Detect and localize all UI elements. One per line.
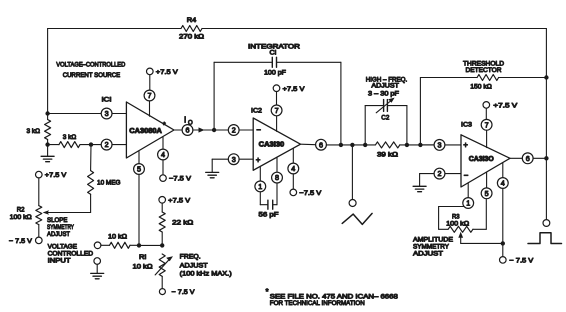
svg-text:3 kΩ: 3 kΩ xyxy=(63,134,77,141)
node junction 150k right xyxy=(544,75,548,79)
terminal +7.5 V (22k top) xyxy=(159,197,191,205)
svg-text:+7.5 V: +7.5 V xyxy=(493,103,518,110)
svg-text:2: 2 xyxy=(438,169,442,178)
terminal -7.5 V (R1 bottom) xyxy=(159,289,195,297)
R2 wiper arrowhead xyxy=(43,210,49,214)
label IC1 xyxy=(102,96,112,103)
node junction IC1 out / C1 / IC2 pin2 xyxy=(212,128,216,132)
wire 150k feedback xyxy=(420,78,546,145)
svg-text:+7.5 V: +7.5 V xyxy=(168,197,191,204)
svg-text:ADJUST: ADJUST xyxy=(180,262,208,269)
svg-text:5: 5 xyxy=(137,165,141,174)
capacitor 56 pF (IC2 comp) xyxy=(259,183,279,219)
node junction C1 feedback xyxy=(339,143,343,147)
wire triangle-wave branch xyxy=(351,145,353,200)
node junction input / pin5 xyxy=(137,243,141,247)
wire right-edge vertical (square-wave output net) xyxy=(545,29,547,220)
svg-text:6: 6 xyxy=(186,126,190,135)
terminal +7.5 V (IC1 pin7) xyxy=(147,68,179,90)
wire R4 feedback loop: left vertical + top horizontal xyxy=(48,29,547,114)
pin 6 IC1 with Io label xyxy=(174,115,193,135)
wire C1 feedback left vertical xyxy=(214,62,272,130)
terminal -7.5 V (IC2 pin4) xyxy=(290,174,322,197)
pin 4 IC1 xyxy=(158,137,169,160)
terminal voltage controlled input xyxy=(48,242,101,264)
svg-text:4: 4 xyxy=(291,164,295,173)
ground (IC3 pin2) xyxy=(413,174,426,192)
svg-text:6: 6 xyxy=(526,154,530,163)
potentiometer R2 100 k xyxy=(10,178,42,237)
terminal triangle output xyxy=(349,200,356,207)
resistor 150 k xyxy=(470,75,498,91)
pin 7 IC2 xyxy=(271,105,282,131)
pin 4 IC3 xyxy=(497,163,508,189)
pin 8 IC2 xyxy=(272,157,283,183)
label slope symmetry adjust xyxy=(47,217,74,238)
node junction at IC1 pin 2 net xyxy=(89,142,93,146)
svg-text:3 – 30 pF: 3 – 30 pF xyxy=(368,90,399,97)
node junction IC3 out xyxy=(544,156,548,160)
svg-text:CURRENT SOURCE: CURRENT SOURCE xyxy=(63,72,121,79)
terminal -7.5 V (R2 bottom) xyxy=(9,237,42,245)
label freq adjust xyxy=(180,254,232,278)
wire IC1 pin5 down xyxy=(138,174,140,245)
node junction R3 wiper / pin4 xyxy=(501,241,505,245)
resistor 10 MEG xyxy=(88,145,121,213)
svg-text:5: 5 xyxy=(485,189,489,198)
svg-text:+7.5 V: +7.5 V xyxy=(156,69,179,76)
resistor 39 k xyxy=(365,142,407,159)
svg-text:2: 2 xyxy=(105,140,109,149)
svg-text:2: 2 xyxy=(232,126,236,135)
svg-text:SLOPE: SLOPE xyxy=(47,217,68,224)
node junction 3k bottom xyxy=(45,142,49,146)
svg-text:3: 3 xyxy=(438,141,442,150)
svg-text:−: − xyxy=(464,171,469,180)
pin 3 IC1 xyxy=(101,108,126,119)
resistor 3 k (vertical, left) xyxy=(27,114,51,145)
svg-text:− 7.5 V: − 7.5 V xyxy=(172,289,196,296)
label IC3 xyxy=(461,122,472,129)
label IC2 xyxy=(251,108,262,115)
label threshold detector xyxy=(463,61,504,75)
svg-text:150 kΩ: 150 kΩ xyxy=(470,83,492,90)
svg-text:CI: CI xyxy=(270,49,277,56)
svg-text:SYMMETRY: SYMMETRY xyxy=(47,224,74,231)
svg-text:100 kΩ: 100 kΩ xyxy=(446,220,469,227)
svg-text:CA3I3O: CA3I3O xyxy=(469,156,495,163)
svg-text:ADJUST: ADJUST xyxy=(47,231,70,238)
svg-text:100 pF: 100 pF xyxy=(264,70,286,77)
resistor 3 k (horizontal) xyxy=(48,134,102,148)
pin 1 IC2 xyxy=(255,167,266,192)
svg-text:R4: R4 xyxy=(187,17,197,24)
pin 3 IC2 xyxy=(212,154,253,165)
svg-text:−: − xyxy=(256,126,261,135)
op-amp IC3 CA3130 triangle xyxy=(461,135,510,187)
svg-text:R2: R2 xyxy=(17,206,25,213)
svg-text:10 kΩ: 10 kΩ xyxy=(108,234,127,241)
svg-text:100 kΩ: 100 kΩ xyxy=(10,214,32,221)
terminal -7.5 V (IC3 pin4) xyxy=(500,257,535,265)
resistor 22 k xyxy=(159,203,193,245)
terminal -7.5 V (IC1 pin4) xyxy=(160,160,192,183)
ground (below 3 k) xyxy=(41,145,54,162)
svg-text:1: 1 xyxy=(258,182,262,191)
svg-text:7: 7 xyxy=(485,120,489,129)
op-amp IC1 CA3080A triangle xyxy=(126,102,174,158)
svg-text:VOLTAGE–CONTROLLED: VOLTAGE–CONTROLLED xyxy=(56,62,125,69)
terminal square output xyxy=(543,220,550,227)
capacitor C2 3-30 pF (variable) xyxy=(365,98,407,145)
svg-text:DETECTOR: DETECTOR xyxy=(466,67,502,74)
svg-text:IC2: IC2 xyxy=(251,108,262,115)
svg-text:4: 4 xyxy=(161,150,165,159)
svg-text:10 kΩ: 10 kΩ xyxy=(133,264,153,271)
svg-text:−7.5 V: −7.5 V xyxy=(299,190,322,197)
svg-text:7: 7 xyxy=(148,91,152,100)
resistor R4 xyxy=(179,17,204,40)
pin 7 IC1 xyxy=(144,90,155,116)
svg-text:R3: R3 xyxy=(452,213,460,220)
pin 2 IC2 xyxy=(214,125,253,136)
node junction at IC1 pin 3 net (left) xyxy=(45,111,49,115)
svg-text:(100 kHz MAX.): (100 kHz MAX.) xyxy=(180,271,232,278)
terminal +7.5 V (R2 top) xyxy=(36,171,68,179)
wire IC1 output with arrow xyxy=(193,127,214,132)
svg-text:*: * xyxy=(266,287,269,296)
svg-text:8: 8 xyxy=(275,173,279,182)
ground (IC2 pin3) xyxy=(206,159,219,178)
label high-freq adjust xyxy=(366,76,408,97)
label voltage-controlled current source xyxy=(56,62,125,79)
svg-text:4: 4 xyxy=(501,179,505,188)
svg-text:O: O xyxy=(188,120,193,126)
svg-text:1: 1 xyxy=(466,199,470,208)
wire R2 wiper to 10 MEG xyxy=(45,212,91,214)
svg-text:FOR TECHNICAL INFORMATION: FOR TECHNICAL INFORMATION xyxy=(270,300,365,307)
node junction triangle output branch xyxy=(350,143,354,147)
wire C1 to IC2 output xyxy=(277,62,341,145)
svg-text:VOLTAGE: VOLTAGE xyxy=(48,243,78,250)
svg-text:ICI: ICI xyxy=(102,96,112,103)
ground (input) xyxy=(91,264,104,279)
svg-text:39 kΩ: 39 kΩ xyxy=(377,152,398,159)
pin 1 IC3 xyxy=(463,183,474,209)
pin 2 IC3 xyxy=(420,168,461,179)
node junction C2 branch left xyxy=(363,143,367,147)
svg-text:CA3080A: CA3080A xyxy=(129,128,162,135)
label integrator xyxy=(248,43,300,50)
svg-text:− 7.5 V: − 7.5 V xyxy=(509,258,534,265)
op-amp IC2 CA3130 triangle xyxy=(253,118,300,170)
triangle waveform symbol xyxy=(342,213,372,224)
svg-text:SYMMETRY: SYMMETRY xyxy=(413,243,450,250)
svg-text:I: I xyxy=(184,115,186,124)
wire IC2 output row xyxy=(326,144,434,146)
pin 5 IC3 xyxy=(481,172,492,198)
svg-text:INTEGRATOR: INTEGRATOR xyxy=(248,43,300,50)
svg-text:−7.5 V: −7.5 V xyxy=(169,176,192,183)
svg-text:IC3: IC3 xyxy=(461,122,472,129)
wire pin4 to -7.5V xyxy=(502,188,504,256)
svg-text:FREQ.: FREQ. xyxy=(180,254,201,261)
pin 2 IC1 xyxy=(101,139,126,150)
svg-text:+7.5 V: +7.5 V xyxy=(283,86,306,93)
svg-text:3 kΩ: 3 kΩ xyxy=(27,128,41,135)
svg-text:*: * xyxy=(163,121,166,130)
svg-text:CA3I30: CA3I30 xyxy=(259,142,285,149)
potentiometer R1 10 k (freq adjust) xyxy=(133,254,174,289)
svg-text:56 pF: 56 pF xyxy=(259,212,279,219)
pin 4 IC2 xyxy=(288,149,299,174)
svg-text:INPUT: INPUT xyxy=(48,257,71,264)
svg-text:RI: RI xyxy=(139,254,147,261)
pin 5 IC1 xyxy=(134,152,145,175)
svg-text:C2: C2 xyxy=(381,114,389,121)
pin 7 IC3 xyxy=(481,119,492,147)
svg-text:+7.5 V: +7.5 V xyxy=(45,172,67,179)
pin 6 IC2 xyxy=(301,139,327,150)
svg-text:AMPLITUDE: AMPLITUDE xyxy=(413,236,454,243)
square waveform symbol xyxy=(528,233,562,244)
wire pin3 row xyxy=(48,113,102,115)
svg-text:22 kΩ: 22 kΩ xyxy=(172,219,193,226)
svg-text:270 kΩ: 270 kΩ xyxy=(179,34,204,41)
R3 wiper arrow xyxy=(458,232,502,244)
svg-text:ADJUST: ADJUST xyxy=(371,83,399,90)
terminal +7.5 V (IC2 pin7) xyxy=(273,85,305,105)
pin 6 IC3 xyxy=(510,153,546,164)
terminal input ground xyxy=(94,258,101,265)
potentiometer R3 100 k (loop pins 1-5) xyxy=(439,199,487,233)
svg-text:3: 3 xyxy=(105,109,109,118)
node junction 22k bottom xyxy=(139,243,164,247)
svg-text:CONTROLLED: CONTROLLED xyxy=(48,250,94,257)
svg-text:+: + xyxy=(256,156,261,165)
footnote xyxy=(266,287,399,307)
node junction 150k / pin3 IC3 xyxy=(418,143,422,147)
node junction C2 branch right xyxy=(405,143,409,147)
terminal +7.5 V (IC3 pin7) xyxy=(483,102,518,120)
resistor 10 k (input) xyxy=(101,234,139,249)
svg-text:+: + xyxy=(463,141,468,150)
capacitor C1 100 pF xyxy=(264,49,286,76)
svg-text:7: 7 xyxy=(275,106,279,115)
svg-text:ADJUST: ADJUST xyxy=(413,250,443,257)
pin 3 IC3 xyxy=(420,140,461,151)
svg-text:− 7.5 V: − 7.5 V xyxy=(9,238,33,245)
label amplitude symmetry adjust xyxy=(413,236,454,257)
svg-text:10 MEG: 10 MEG xyxy=(97,179,121,186)
svg-text:3: 3 xyxy=(232,155,236,164)
svg-text:6: 6 xyxy=(319,140,323,149)
